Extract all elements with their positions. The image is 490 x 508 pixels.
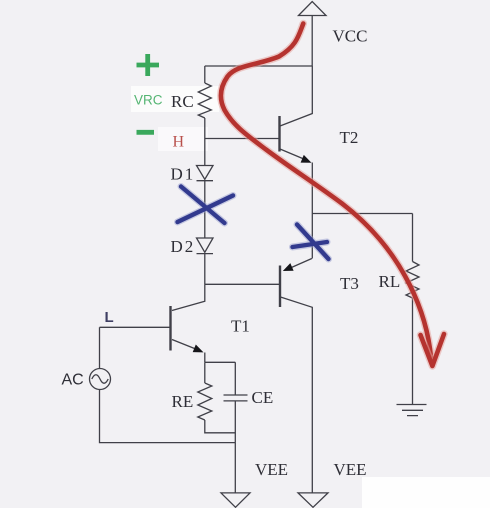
svg-text:VEE: VEE: [255, 460, 288, 479]
T1 emitter: [172, 340, 197, 350]
capacitor CE: [224, 362, 248, 442]
wire T1 emitter down: [205, 353, 236, 363]
T1 base wire: [100, 326, 171, 328]
wire CE bottom to VEE: [234, 443, 236, 493]
wire to RL: [312, 213, 412, 215]
svg-text:H: H: [173, 134, 185, 151]
T3 collector: [281, 297, 313, 493]
resistor RE: [198, 383, 212, 420]
svg-text:VRC: VRC: [134, 93, 163, 108]
wire VCC to top rail: [311, 16, 313, 67]
wire D1 to D2: [204, 181, 206, 238]
T2 emitter wire down: [311, 163, 313, 259]
T2 emitter: [280, 149, 305, 160]
T3 base bar: [279, 266, 281, 308]
VEE symbol 1: [221, 493, 250, 507]
svg-text:RL: RL: [379, 272, 401, 291]
wire RL top: [412, 214, 414, 262]
wire RL bottom: [412, 298, 414, 405]
green minus: [137, 130, 155, 135]
blue X over diodes: [178, 187, 234, 224]
svg-text:L: L: [105, 309, 114, 326]
AC source: [90, 369, 111, 390]
diode D2: [197, 238, 214, 254]
T3 emitter arrow: [283, 263, 294, 271]
T2 collector: [280, 66, 312, 126]
wire AC top (node L): [99, 327, 101, 368]
resistor RC: [198, 83, 211, 118]
diode D1: [197, 166, 214, 181]
svg-text:T2: T2: [340, 128, 359, 147]
wire top rail: [205, 65, 313, 67]
transistor Q T2 base bar: [278, 116, 280, 152]
wire RC bottom to D1: [204, 118, 206, 166]
T1 collector: [172, 284, 205, 310]
svg-text:RC: RC: [171, 92, 194, 111]
svg-text:RE: RE: [172, 392, 194, 411]
wire D2 to node: [204, 254, 206, 285]
svg-text:VCC: VCC: [333, 27, 368, 46]
T1 base bar: [169, 306, 171, 351]
resistor RL: [406, 262, 419, 299]
wire AC bottom: [100, 390, 236, 443]
svg-text:D1: D1: [171, 165, 196, 184]
wire RC top: [204, 66, 206, 83]
wire node H to T2 base: [205, 138, 280, 140]
transistor T3 emitter: [288, 259, 312, 270]
svg-text:T3: T3: [340, 274, 359, 293]
svg-text:VEE: VEE: [334, 460, 367, 479]
VCC symbol: [299, 2, 327, 16]
red arrowhead: [421, 334, 445, 366]
svg-text:AC: AC: [62, 372, 84, 389]
svg-text:T1: T1: [231, 317, 250, 336]
red load-line curve: [221, 24, 431, 358]
wire RE bottom: [205, 420, 236, 433]
T1 emitter arrow: [193, 345, 204, 353]
svg-text:CE: CE: [252, 388, 274, 407]
green plus: [137, 54, 160, 76]
T2 emitter arrow: [301, 155, 312, 163]
VEE symbol 2: [298, 493, 328, 507]
svg-text:D2: D2: [171, 237, 196, 256]
ground: [397, 405, 427, 416]
wire RE top: [204, 362, 206, 383]
T3 base wire: [205, 283, 280, 285]
blue X over T3: [293, 225, 329, 260]
